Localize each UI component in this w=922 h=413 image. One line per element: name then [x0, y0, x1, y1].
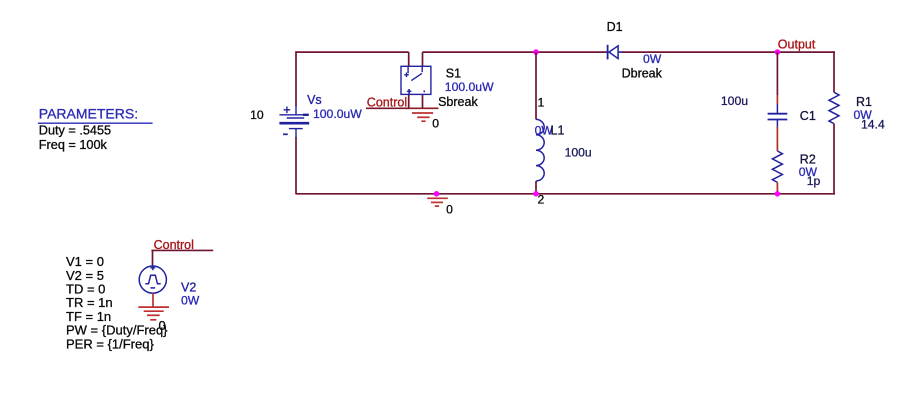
svg-text:Freq = 100k: Freq = 100k	[39, 138, 108, 152]
svg-text:D1: D1	[607, 20, 623, 34]
svg-text:C1: C1	[800, 109, 816, 123]
wire V2 bottom pin	[152, 293, 154, 307]
pulse source V2	[139, 265, 166, 293]
wire right branch bottom (R1)	[833, 124, 835, 195]
svg-text:Output: Output	[778, 37, 816, 51]
svg-text:0W: 0W	[643, 52, 662, 66]
junction node inductor bottom	[533, 191, 539, 197]
wire top right segment (diode to corner)	[622, 51, 835, 53]
svg-text:V2: V2	[181, 281, 196, 295]
svg-text:100.0uW: 100.0uW	[445, 80, 494, 94]
PARAMETERS underline	[38, 122, 153, 124]
switch S1 pins bottom	[408, 94, 410, 108]
junction node Output	[775, 49, 781, 55]
svg-text:Vs: Vs	[307, 93, 322, 107]
wire V2 top pin	[152, 250, 154, 266]
svg-text:0W: 0W	[181, 294, 200, 308]
svg-text:R1: R1	[856, 95, 872, 109]
svg-text:Sbreak: Sbreak	[438, 95, 478, 109]
svg-text:14.4: 14.4	[861, 117, 885, 131]
svg-text:0: 0	[432, 117, 439, 131]
svg-text:100u: 100u	[565, 145, 592, 159]
switch S1	[401, 66, 431, 94]
wire control underline	[366, 107, 410, 109]
junction node at switch output	[533, 49, 539, 55]
wire C1 to R2	[776, 120, 778, 128]
svg-text:Duty = .5455: Duty = .5455	[39, 124, 111, 138]
wire inductor bottom	[535, 181, 537, 194]
wire left branch top (Vs)	[295, 51, 297, 106]
svg-text:PER = {1/Freq}: PER = {1/Freq}	[66, 336, 154, 351]
wire R2 bottom	[776, 182, 778, 193]
svg-text:100u: 100u	[721, 94, 748, 108]
junction node R2 bottom	[775, 191, 781, 197]
inductor L1	[536, 119, 544, 181]
wire control bottom underline	[151, 249, 213, 251]
svg-text:Dbreak: Dbreak	[622, 67, 663, 81]
capacitor C1	[768, 114, 788, 120]
svg-text:PARAMETERS:: PARAMETERS:	[39, 105, 138, 121]
resistor R2	[772, 151, 782, 182]
diode D1	[606, 45, 623, 60]
battery source Vs	[279, 105, 309, 138]
svg-text:10: 10	[250, 108, 264, 122]
svg-text:100.0uW: 100.0uW	[313, 107, 362, 121]
ground 0 under switch	[407, 108, 439, 121]
svg-text:1: 1	[538, 95, 545, 109]
wire left branch bottom (Vs)	[295, 137, 297, 194]
wire right branch top (R1)	[833, 51, 835, 92]
wire top-left segment	[296, 51, 409, 53]
svg-text:0: 0	[446, 202, 453, 216]
ground 0 bottom middle	[427, 198, 448, 206]
switch S1 pins top	[408, 52, 410, 66]
wire C1 branch top	[776, 52, 778, 95]
junction node bottom ground	[434, 191, 440, 197]
svg-text:S1: S1	[446, 66, 461, 80]
svg-text:Control: Control	[367, 95, 407, 109]
wire top middle segment (switch to diode)	[423, 51, 607, 53]
ground 0 under V2	[138, 307, 169, 320]
svg-text:L1: L1	[551, 124, 565, 138]
wire inductor top	[535, 52, 537, 119]
svg-text:1p: 1p	[807, 174, 821, 188]
svg-text:2: 2	[538, 193, 545, 207]
wire bottom	[296, 193, 835, 195]
resistor R1	[829, 92, 839, 123]
